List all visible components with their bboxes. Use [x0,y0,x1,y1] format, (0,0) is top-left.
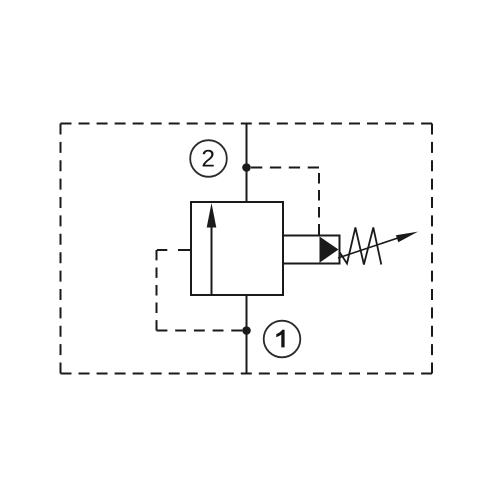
wire port 1 vertical line [246,295,248,374]
node junction at port 2 [242,163,251,172]
pilot line dashed bottom horizontal to port 1 node [157,330,243,332]
spring [340,228,382,265]
node junction at port 1 [242,326,251,335]
envelope boundary left edge (dashed) [60,124,62,374]
envelope boundary bottom edge (dashed) [61,373,433,375]
adjustment arrow head [396,232,418,243]
flow arrow line [211,224,213,294]
port label circle 2 [190,140,227,177]
port label circle 1 [264,321,301,358]
pilot actuator box [283,236,340,264]
valve body square [191,202,283,295]
flow arrow head [207,203,217,228]
pilot line dashed top horizontal [251,167,319,169]
envelope boundary right edge (dashed) [431,124,433,374]
pilot line dashed right vertical [318,171,320,235]
pilot line dashed left horizontal from valve body [157,249,191,251]
port label text 1 [276,330,284,348]
svg-text:2: 2 [201,146,215,173]
envelope boundary top edge (dashed) [61,123,433,125]
pilot pressure triangle [320,237,339,263]
adjustment arrow shaft [338,235,408,258]
wire port 2 vertical line [246,124,248,203]
pilot line dashed left vertical [156,250,158,331]
